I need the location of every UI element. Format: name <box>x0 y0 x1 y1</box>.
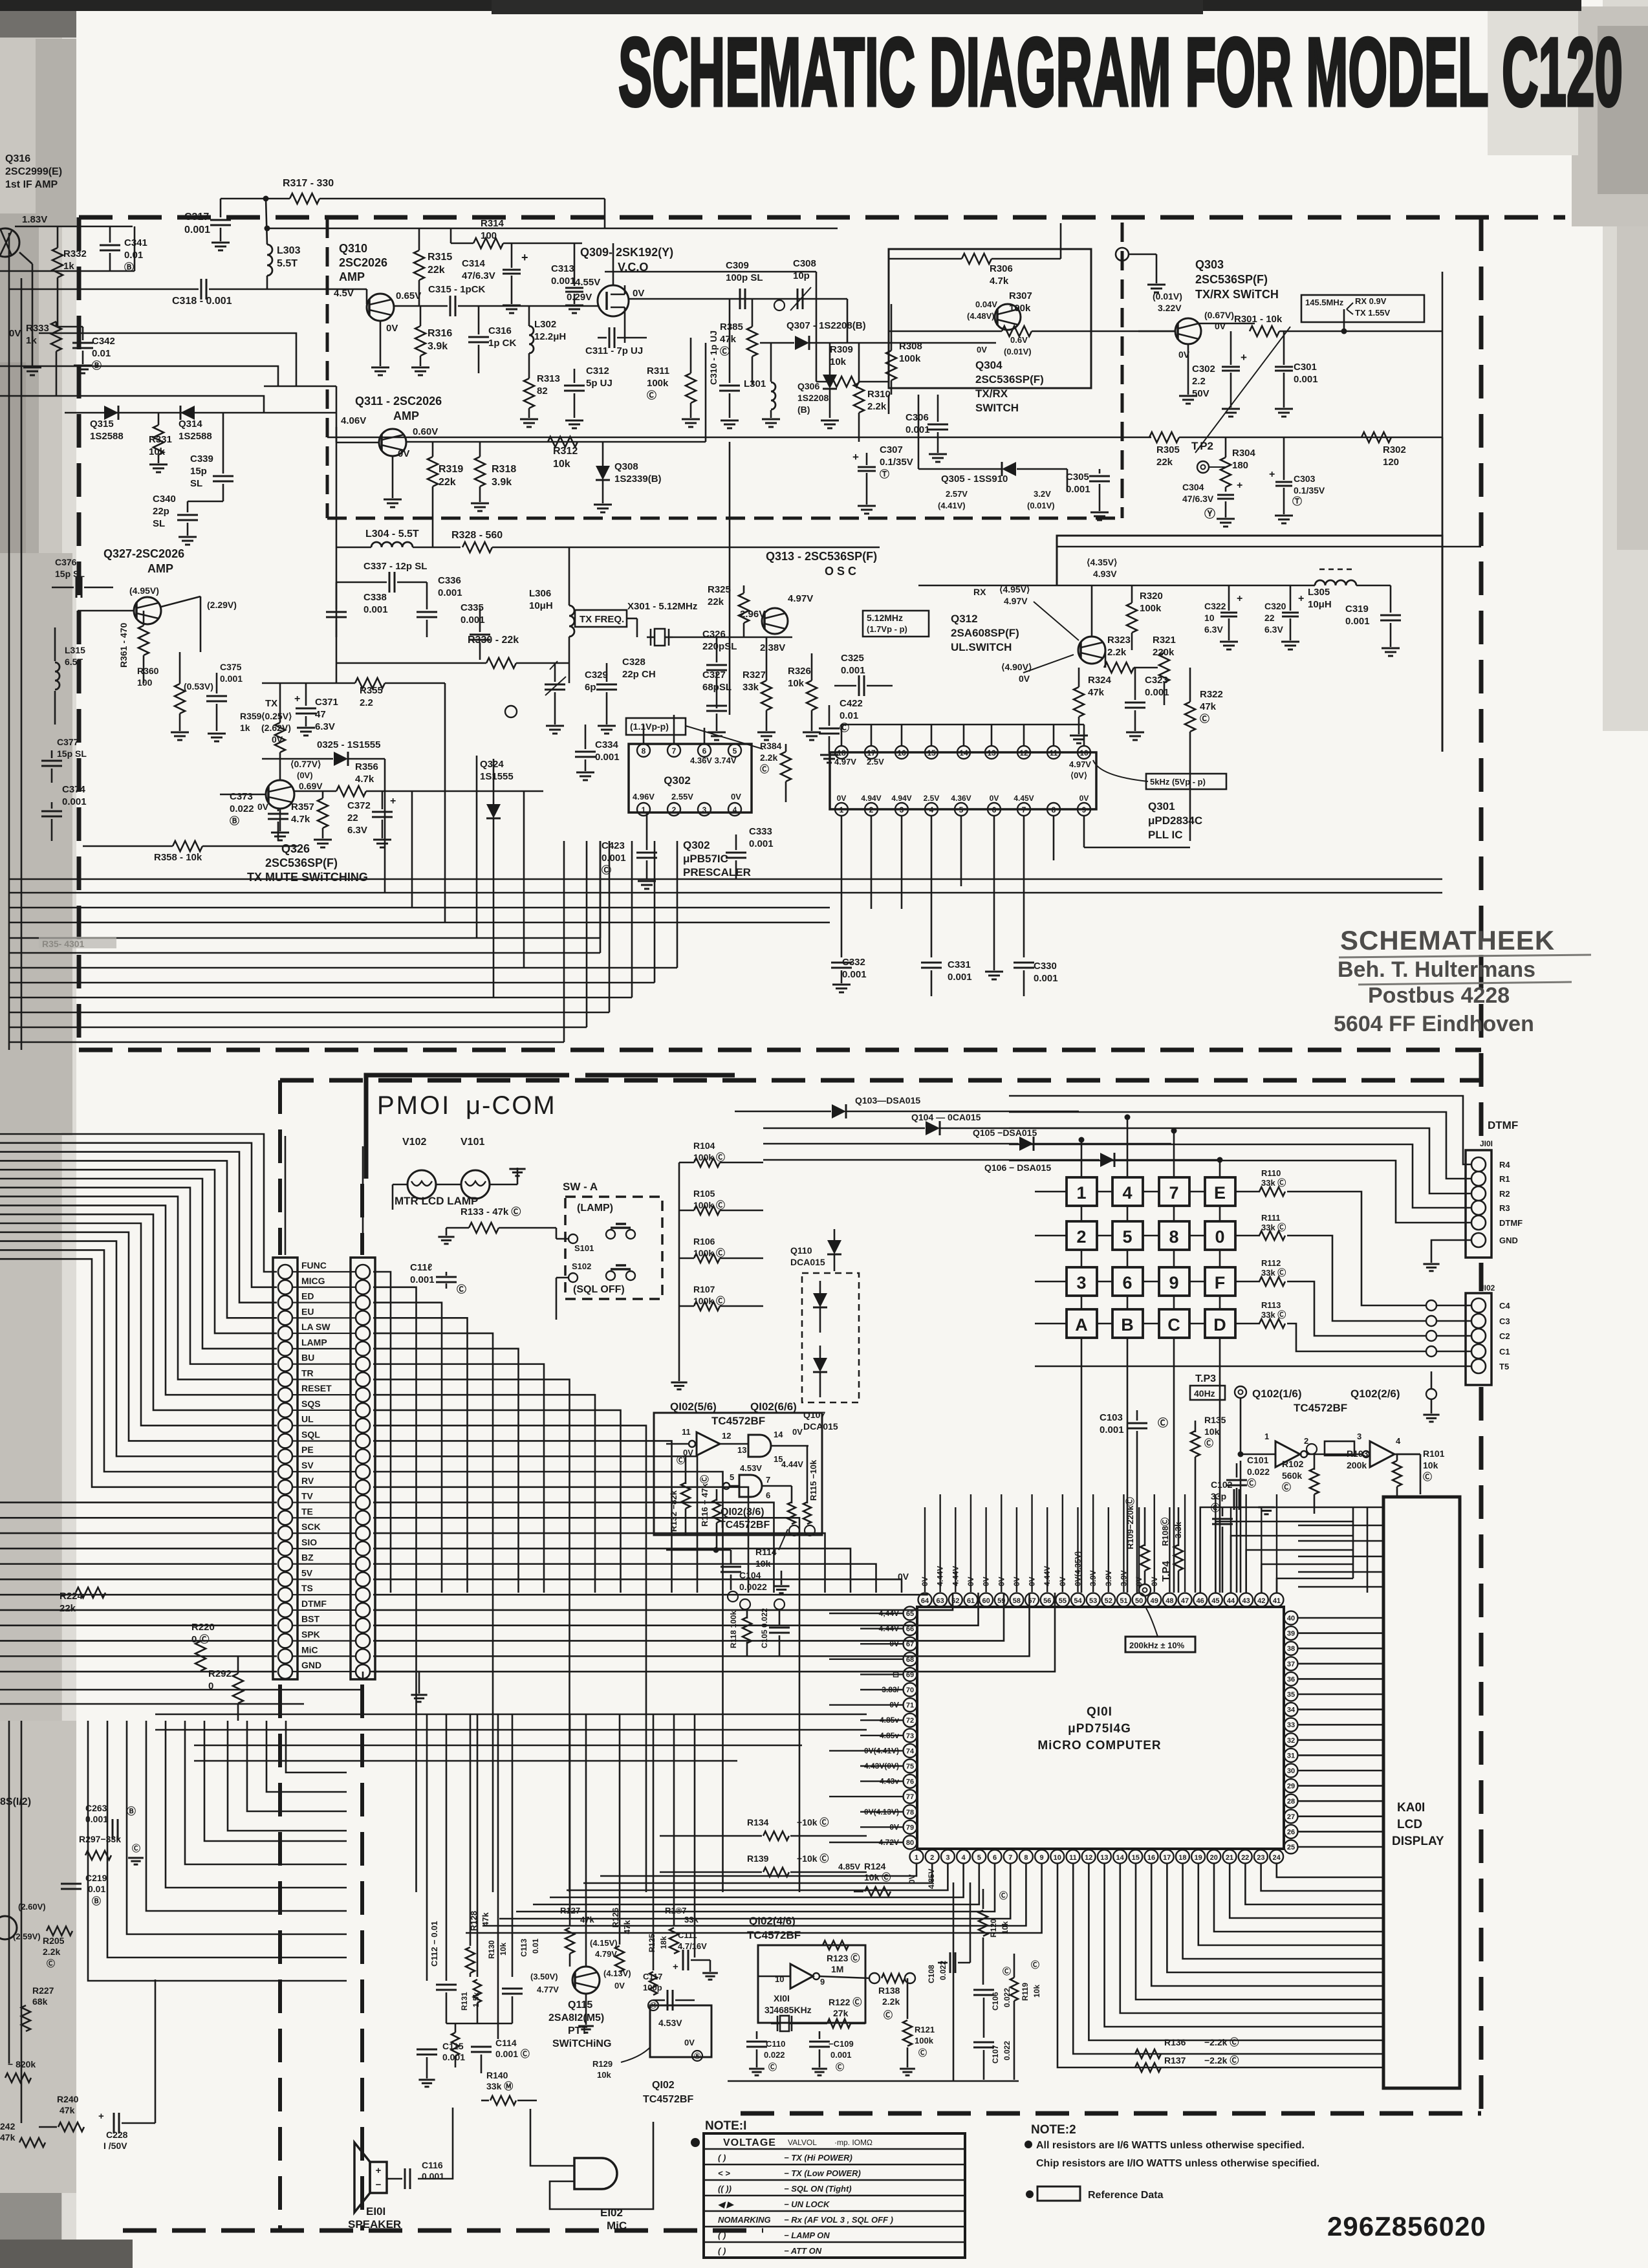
svg-text:PTT: PTT <box>568 2025 587 2036</box>
svg-text:0.01: 0.01 <box>92 348 111 359</box>
svg-text:0V: 0V <box>889 1822 899 1831</box>
svg-text:+: + <box>390 796 396 807</box>
svg-text:C114: C114 <box>495 2038 517 2048</box>
svg-text:C331: C331 <box>948 959 971 970</box>
svg-text:6p: 6p <box>585 682 596 693</box>
svg-text:(SQL OFF): (SQL OFF) <box>573 1284 625 1295</box>
svg-text:Q303: Q303 <box>1195 258 1224 271</box>
svg-text:6.3V: 6.3V <box>1204 624 1223 635</box>
svg-text:C328: C328 <box>622 657 645 668</box>
transistor Q303 <box>1175 318 1201 344</box>
svg-text:T.P3: T.P3 <box>1195 1373 1216 1384</box>
svg-text:⊟: ⊟ <box>893 1670 899 1679</box>
svg-text:6: 6 <box>766 1490 770 1500</box>
svg-text:69: 69 <box>906 1671 914 1679</box>
svg-text:Beh. T. Hultermans: Beh. T. Hultermans <box>1338 957 1535 982</box>
svg-text:X301 - 5.12MHz: X301 - 5.12MHz <box>627 601 697 612</box>
wire PLL top pins bus <box>841 724 1084 726</box>
svg-text:BST: BST <box>301 1614 320 1624</box>
wire rail 905 <box>918 585 1313 587</box>
svg-text:4.36V: 4.36V <box>951 794 971 803</box>
svg-text:R131: R131 <box>460 1992 469 2011</box>
svg-text:TC4572BF: TC4572BF <box>1294 1402 1347 1414</box>
svg-text:R297−33k: R297−33k <box>79 1834 121 1844</box>
capacitor C110 0.022 <box>746 2041 767 2043</box>
svg-text:55: 55 <box>1059 1597 1067 1605</box>
svg-text:4.79V: 4.79V <box>595 1949 617 1959</box>
wire nested corner B <box>0 366 278 386</box>
svg-text:R112: R112 <box>1261 1258 1281 1268</box>
svg-text:1.83V: 1.83V <box>22 214 47 225</box>
svg-text:0.001: 0.001 <box>1294 374 1318 385</box>
svg-text:R121: R121 <box>915 2025 935 2034</box>
gate inverter Q102 5/6 <box>689 1441 695 1447</box>
svg-text:(0.67V): (0.67V) <box>1204 310 1234 320</box>
svg-text:Ⓑ: Ⓑ <box>127 1806 136 1816</box>
PLL IC Q301 box <box>830 752 1096 809</box>
svg-text:24: 24 <box>1272 1854 1281 1862</box>
svg-text:C342: C342 <box>92 336 115 347</box>
svg-text:4: 4 <box>1122 1183 1132 1203</box>
ground Q316 <box>23 367 41 369</box>
svg-text:3: 3 <box>1357 1432 1361 1441</box>
svg-text:77: 77 <box>906 1793 914 1801</box>
svg-text:TX MUTE SWiTCHING: TX MUTE SWiTCHING <box>247 871 368 884</box>
svg-text:R126: R126 <box>611 1908 620 1928</box>
micro computer top pin row <box>918 1593 932 1607</box>
svg-text:− ATT ON: − ATT ON <box>784 2246 822 2256</box>
svg-text:C374: C374 <box>62 784 86 795</box>
svg-text:R308: R308 <box>899 341 922 352</box>
svg-text:100p SL: 100p SL <box>726 272 763 283</box>
bottom section dashed border bottom-right <box>741 2111 1481 2116</box>
svg-text:R138: R138 <box>878 1985 900 1996</box>
svg-text:TX/RX SWiTCH: TX/RX SWiTCH <box>1195 288 1279 301</box>
wires mic <box>530 2109 574 2166</box>
svg-text:1S2208: 1S2208 <box>797 393 829 403</box>
svg-text:70: 70 <box>906 1686 914 1694</box>
svg-text:R323: R323 <box>1107 635 1131 646</box>
svg-text:(0V): (0V) <box>297 770 313 780</box>
svg-text:⟨0V⟩: ⟨0V⟩ <box>1070 770 1087 780</box>
key 1 <box>1067 1177 1097 1206</box>
connector pin pair SPK <box>278 1633 292 1648</box>
svg-text:C309: C309 <box>726 260 749 271</box>
svg-text:Q305 - 1SS910: Q305 - 1SS910 <box>941 474 1008 485</box>
svg-text:76: 76 <box>906 1778 914 1786</box>
resistor R138 2.2k <box>819 1976 869 1978</box>
svg-text:3.9k: 3.9k <box>428 341 448 352</box>
svg-text:C4: C4 <box>1499 1301 1510 1311</box>
svg-text:C317: C317 <box>184 212 209 223</box>
svg-text:SL: SL <box>190 478 202 489</box>
svg-text:22: 22 <box>1241 1854 1249 1862</box>
svg-text:14: 14 <box>774 1430 783 1439</box>
svg-text:10μH: 10μH <box>1308 599 1332 610</box>
ground Q301 pin6 <box>993 957 995 970</box>
svg-text:33k Ⓒ: 33k Ⓒ <box>1261 1223 1286 1232</box>
svg-text:68: 68 <box>906 1656 914 1664</box>
svg-text:0.1/35V: 0.1/35V <box>1294 485 1325 496</box>
svg-text:(4.48V): (4.48V) <box>967 311 995 321</box>
svg-text:R123 Ⓒ: R123 Ⓒ <box>827 1953 860 1963</box>
svg-text:0.001: 0.001 <box>85 1814 108 1824</box>
svg-text:C: C <box>1167 1315 1180 1335</box>
svg-text:0V: 0V <box>731 792 741 801</box>
svg-text:47: 47 <box>315 709 326 720</box>
svg-text:PLL IC: PLL IC <box>1148 829 1183 841</box>
svg-text:μPD75I4G: μPD75I4G <box>1068 1722 1131 1736</box>
ground R313 <box>520 419 538 420</box>
svg-text:C333: C333 <box>749 826 772 837</box>
wire osc node <box>673 637 792 638</box>
label 5.12MHz 1.7Vp-p callout <box>863 611 929 637</box>
svg-text:+: + <box>376 2165 382 2176</box>
svg-text:RESET: RESET <box>301 1383 332 1393</box>
svg-text:10k: 10k <box>788 678 805 689</box>
scan noise top right corner <box>1603 0 1648 731</box>
svg-text:PMOI: PMOI <box>377 1091 451 1120</box>
svg-text:11: 11 <box>1069 1854 1077 1862</box>
connector pin pair GND <box>278 1664 292 1679</box>
svg-text:R333: R333 <box>26 323 49 334</box>
resistor R119 10k <box>1010 1978 1018 2001</box>
svg-text:200kHz ± 10%: 200kHz ± 10% <box>1129 1641 1185 1650</box>
svg-text:0.022: 0.022 <box>764 2050 785 2060</box>
connector pin pair BST <box>278 1619 292 1633</box>
svg-text:C107: C107 <box>991 2045 1000 2064</box>
svg-text:5.5T: 5.5T <box>277 258 298 269</box>
svg-text:17: 17 <box>867 748 876 758</box>
svg-text:DCA015: DCA015 <box>803 1421 838 1432</box>
svg-text:+: + <box>673 1961 678 1972</box>
capacitor near gates with ground <box>1233 1489 1235 1510</box>
svg-text:C113: C113 <box>519 1939 528 1957</box>
svg-text:R118 100k: R118 100k <box>729 1611 738 1648</box>
svg-text:5V: 5V <box>301 1567 313 1578</box>
transistor stub left edge <box>0 1916 17 1939</box>
wire R104-107 bus <box>678 1162 680 1358</box>
svg-text:4.5V: 4.5V <box>334 288 354 299</box>
svg-text:L303: L303 <box>277 245 301 256</box>
svg-text:0V: 0V <box>9 328 21 339</box>
svg-text:C376: C376 <box>55 557 77 567</box>
svg-text:T5: T5 <box>1499 1362 1509 1371</box>
svg-text:Q327-2SC2026: Q327-2SC2026 <box>103 547 184 560</box>
svg-text:R133 - 47k Ⓒ: R133 - 47k Ⓒ <box>461 1206 521 1217</box>
svg-text:O S C: O S C <box>825 565 856 578</box>
svg-text:36: 36 <box>1287 1675 1295 1683</box>
svg-text:C117: C117 <box>643 1972 662 1981</box>
micro computer left pin column <box>904 1607 917 1620</box>
svg-text:4.45V: 4.45V <box>1014 794 1034 803</box>
svg-text:7: 7 <box>1022 805 1026 814</box>
svg-text:C108: C108 <box>927 1965 936 1983</box>
svg-text:0V(4.13V): 0V(4.13V) <box>864 1807 899 1816</box>
svg-text:Q309- 2SK192(Y): Q309- 2SK192(Y) <box>580 246 673 259</box>
svg-text:AMP: AMP <box>339 270 365 283</box>
svg-text:EU: EU <box>301 1306 314 1316</box>
connector pin pair SQL <box>278 1434 292 1448</box>
keypad column wires <box>1081 1206 1083 1221</box>
transistor Q311 <box>379 429 406 456</box>
svg-text:10k: 10k <box>553 459 570 470</box>
svg-text:−C109: −C109 <box>829 2039 854 2049</box>
svg-text:9: 9 <box>820 1977 825 1987</box>
svg-text:AMP: AMP <box>147 562 173 575</box>
svg-text:Q311 - 2SC2026: Q311 - 2SC2026 <box>355 395 442 408</box>
svg-text:50V: 50V <box>1192 388 1209 399</box>
svg-text:SWITCH: SWITCH <box>975 402 1019 414</box>
svg-text:MICG: MICG <box>301 1276 325 1286</box>
gate nand Q102 3/6 <box>723 1483 730 1489</box>
svg-text:0.001: 0.001 <box>841 665 865 676</box>
svg-text:C373: C373 <box>230 791 253 802</box>
svg-text:38: 38 <box>1287 1645 1295 1653</box>
svg-text:9: 9 <box>1040 1854 1044 1862</box>
svg-text:48: 48 <box>1166 1597 1173 1605</box>
svg-text:64: 64 <box>921 1597 929 1605</box>
svg-text:3.2V: 3.2V <box>1034 489 1051 499</box>
svg-text:R240: R240 <box>57 2094 79 2104</box>
svg-text:2SC536SP(F): 2SC536SP(F) <box>975 373 1044 386</box>
wire bus upper <box>816 272 818 382</box>
wires oscillator verticals <box>953 1882 955 1963</box>
svg-text:− TX (Low POWER): − TX (Low POWER) <box>784 2168 861 2178</box>
svg-text:R322: R322 <box>1200 689 1223 700</box>
svg-text:Q307 - 1S2208(B): Q307 - 1S2208(B) <box>786 320 866 331</box>
wire Q310 base <box>366 289 368 304</box>
wires PTT verticals <box>426 1714 428 1981</box>
svg-text:46: 46 <box>1197 1597 1204 1605</box>
svg-text:4,44V: 4,44V <box>879 1609 899 1618</box>
key 0 <box>1205 1221 1235 1250</box>
junction dot gates <box>713 1547 719 1553</box>
wire VCO out y462 <box>629 298 847 300</box>
svg-text:GND: GND <box>1499 1236 1518 1245</box>
svg-text:Ⓒ: Ⓒ <box>884 2010 893 2020</box>
svg-text:0V: 0V <box>792 1427 803 1437</box>
svg-text:FUNC: FUNC <box>301 1260 327 1270</box>
svg-text:33k Ⓒ: 33k Ⓒ <box>1261 1310 1286 1320</box>
svg-text:L302: L302 <box>534 319 556 330</box>
svg-text:2SC536SP(F): 2SC536SP(F) <box>1195 273 1268 286</box>
svg-text:0.29V: 0.29V <box>567 292 592 303</box>
svg-text:TC4572BF: TC4572BF <box>711 1415 765 1427</box>
svg-text:0V: 0V <box>633 288 644 299</box>
key F <box>1205 1267 1235 1296</box>
PM01 box dashed left edge <box>360 1184 364 1255</box>
svg-text:0V(4.35V): 0V(4.35V) <box>1074 1551 1083 1586</box>
svg-text:JI02: JI02 <box>1480 1283 1495 1292</box>
svg-text:+: + <box>294 693 300 704</box>
svg-text:R384: R384 <box>760 741 782 751</box>
svg-text:0V: 0V <box>1079 794 1089 803</box>
svg-text:L315: L315 <box>65 645 85 655</box>
svg-text:TS: TS <box>301 1583 313 1593</box>
svg-text:6.3V: 6.3V <box>315 721 335 732</box>
svg-text:Q102(2/6): Q102(2/6) <box>1350 1388 1400 1400</box>
svg-text:C11ℓ: C11ℓ <box>410 1262 432 1273</box>
svg-text:C312: C312 <box>586 365 609 376</box>
svg-text:0.69V: 0.69V <box>299 781 323 791</box>
svg-text:(0.01V): (0.01V) <box>1004 347 1032 356</box>
svg-text:F: F <box>1215 1273 1226 1292</box>
svg-text:Ⓒ: Ⓒ <box>47 1959 55 1968</box>
wire Q303 out to right <box>1343 309 1345 331</box>
svg-text:R302: R302 <box>1383 444 1406 455</box>
wire rail y419 <box>0 270 135 272</box>
svg-text:−: − <box>376 2179 382 2190</box>
svg-text:0.022: 0.022 <box>230 803 254 814</box>
svg-text:23: 23 <box>1257 1854 1264 1862</box>
svg-text:ED: ED <box>301 1291 314 1302</box>
svg-text:R385: R385 <box>720 322 743 333</box>
svg-text:L306: L306 <box>529 588 551 599</box>
svg-text:SWiTCHiNG: SWiTCHiNG <box>552 2038 611 2049</box>
svg-text:6: 6 <box>993 1854 997 1862</box>
svg-text:C2: C2 <box>1499 1331 1510 1341</box>
svg-text:( ): ( ) <box>718 2230 726 2240</box>
transistor Q304 <box>995 304 1021 330</box>
svg-text:NOTE:I: NOTE:I <box>705 2119 746 2133</box>
svg-text:< >: < > <box>718 2168 730 2178</box>
svg-text:C422: C422 <box>840 698 863 709</box>
connector pin pair SV <box>278 1465 292 1479</box>
svg-text:R220: R220 <box>191 1622 215 1633</box>
svg-text:4.44V: 4.44V <box>936 1566 945 1586</box>
svg-text:33k: 33k <box>684 1915 699 1925</box>
svg-text:R125: R125 <box>647 1934 656 1952</box>
svg-text:+: + <box>1241 351 1247 364</box>
svg-text:0.65V: 0.65V <box>396 290 421 301</box>
small junction circles left of J102 <box>1426 1300 1437 1311</box>
svg-text:4: 4 <box>962 1854 966 1862</box>
svg-text:C102: C102 <box>1211 1479 1233 1490</box>
gate inverter Q102 2/6 <box>1370 1441 1394 1467</box>
svg-text:R328 - 560: R328 - 560 <box>451 530 503 541</box>
svg-text:37: 37 <box>1287 1661 1295 1668</box>
svg-text:0.60V: 0.60V <box>413 426 438 437</box>
top section dashed border left <box>77 217 81 1050</box>
wire Q310 emitter to ground <box>380 321 382 366</box>
svg-text:33p: 33p <box>1211 1491 1226 1501</box>
ground C314 <box>503 305 521 307</box>
svg-text:C375: C375 <box>220 662 242 672</box>
wires right strip staircase fan to micro <box>373 1272 391 1593</box>
svg-text:R316: R316 <box>428 328 452 339</box>
svg-text:4.97V: 4.97V <box>788 593 813 604</box>
svg-text:C423: C423 <box>602 840 625 851</box>
svg-text:2.2k: 2.2k <box>760 752 777 763</box>
wires PLL bottom pins down <box>841 816 843 957</box>
svg-text:33k Ⓜ: 33k Ⓜ <box>486 2081 513 2091</box>
svg-text:Q110: Q110 <box>790 1245 812 1256</box>
wire rail 845 right <box>1057 546 1481 548</box>
connector pin pair SCK <box>278 1526 292 1540</box>
key 4 <box>1112 1177 1143 1206</box>
svg-text:C314: C314 <box>462 258 486 269</box>
svg-text:3: 3 <box>702 805 707 814</box>
micro right pins wires to LCD <box>1298 1617 1383 1619</box>
wire Q311 base <box>336 427 338 442</box>
bottom section dashed border top <box>280 1078 1481 1083</box>
box Q304 TX/RX switch enclosure <box>889 249 1091 388</box>
svg-text:0.001: 0.001 <box>830 2050 852 2060</box>
key B <box>1112 1309 1143 1338</box>
svg-text:Chip resistors are I/IO WATT: Chip resistors are I/IO WATTS unless oth… <box>1036 2158 1319 2169</box>
svg-text:( ): ( ) <box>718 2153 726 2163</box>
svg-text:R132 −82k: R132 −82k <box>669 1490 678 1532</box>
svg-text:Q302: Q302 <box>664 774 691 787</box>
svg-text:+: + <box>1269 469 1275 480</box>
svg-text:1k: 1k <box>26 335 37 346</box>
svg-text:R301 - 10k: R301 - 10k <box>1234 314 1283 325</box>
ground L301 <box>762 419 780 420</box>
svg-text:47/6.3V: 47/6.3V <box>462 270 495 281</box>
svg-text:0.01: 0.01 <box>840 710 858 721</box>
svg-text:SPEAKER: SPEAKER <box>348 2218 401 2230</box>
svg-text:10k: 10k <box>830 356 847 367</box>
svg-text:QI02(3/6): QI02(3/6) <box>721 1507 764 1518</box>
svg-text:R137: R137 <box>1164 2055 1186 2066</box>
svg-text:22p CH: 22p CH <box>622 669 656 680</box>
svg-text:0.001: 0.001 <box>1100 1424 1124 1435</box>
connector pin pair LAMP <box>278 1342 292 1356</box>
wire stubs above top pins <box>924 1507 926 1592</box>
svg-text:28: 28 <box>1287 1798 1295 1805</box>
ground C329 C328 <box>546 725 564 727</box>
svg-text:0V: 0V <box>398 448 409 459</box>
svg-text:21: 21 <box>1226 1854 1233 1862</box>
svg-text:6: 6 <box>992 805 997 814</box>
svg-text:11: 11 <box>1050 748 1058 758</box>
vertical bus right of micro <box>1352 1507 1354 1578</box>
svg-text:+: + <box>1237 593 1242 604</box>
svg-text:LA SW: LA SW <box>301 1322 331 1332</box>
svg-text:( ): ( ) <box>718 2246 726 2256</box>
svg-text:C377: C377 <box>57 737 79 747</box>
svg-text:100k: 100k <box>1140 603 1162 614</box>
svg-text:Q310: Q310 <box>339 242 367 255</box>
svg-text:2.2k: 2.2k <box>43 1946 60 1957</box>
svg-text:R332: R332 <box>63 248 87 259</box>
connector pin pair RV <box>278 1480 292 1494</box>
svg-text:0V: 0V <box>1019 673 1030 684</box>
svg-text:3: 3 <box>900 805 904 814</box>
svg-text:R327: R327 <box>743 670 766 681</box>
connector pin pair EU <box>278 1311 292 1325</box>
svg-text:13: 13 <box>987 748 996 758</box>
svg-text:SL: SL <box>153 518 165 529</box>
connector pin pair TS <box>278 1587 292 1602</box>
svg-text:R130: R130 <box>487 1940 496 1959</box>
transistor Q327 <box>134 597 161 624</box>
svg-text:4.7/16V: 4.7/16V <box>678 1941 707 1951</box>
svg-text:+: + <box>98 2111 104 2122</box>
svg-text:Q304: Q304 <box>975 359 1003 371</box>
svg-text:R135: R135 <box>1204 1415 1226 1425</box>
wire bus mid-section lines <box>9 878 1442 880</box>
svg-text:6: 6 <box>702 747 707 756</box>
svg-text:Q102(1/6): Q102(1/6) <box>1252 1388 1302 1400</box>
svg-text:35: 35 <box>1287 1691 1295 1699</box>
svg-text:4.97V: 4.97V <box>1004 596 1028 606</box>
svg-text:C327: C327 <box>702 670 726 681</box>
svg-text:100: 100 <box>137 677 153 688</box>
svg-text:R1℗7: R1℗7 <box>665 1906 686 1915</box>
svg-text:+: + <box>1237 480 1242 491</box>
